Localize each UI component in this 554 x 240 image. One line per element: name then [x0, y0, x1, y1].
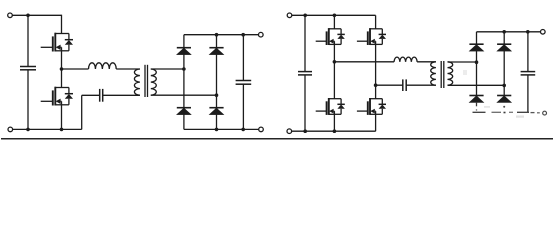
transistor Q4 (full-bridge leg A low MOSFET): [316, 98, 345, 115]
terminal input- (right circuit): [287, 129, 292, 134]
node top rail / C6 junction: [526, 30, 530, 34]
diode D3 (bridge upper-right): [209, 48, 223, 55]
node top rail / C3 junction: [241, 33, 245, 37]
transformer T2 primary winding: [431, 62, 436, 85]
wire inductor to transformer primary (right): [417, 61, 436, 63]
terminal input+ (right circuit): [287, 13, 292, 18]
wire Q1 source lead: [61, 51, 63, 69]
wire midpoint to inductor: [62, 68, 89, 70]
node top rail / Q3 drain: [333, 14, 337, 18]
wire Q5 source lead: [375, 44, 377, 85]
diode D8 (rect lower-right): [497, 96, 511, 103]
terminal input+ (left circuit): [8, 13, 13, 18]
transistor Q6 (full-bridge leg B low MOSFET): [357, 98, 386, 115]
transistor Q5 (full-bridge leg B high MOSFET): [357, 28, 386, 45]
diode D7 (rect upper-right): [497, 44, 511, 51]
diode D4 (bridge lower-right): [209, 108, 223, 115]
wire top input rail (right): [292, 14, 376, 16]
wire Q4 drain lead: [333, 62, 335, 99]
transformer T2 secondary winding: [448, 62, 453, 85]
wire midpoint to D4: [216, 95, 218, 108]
diode D6 (rect lower-left): [469, 96, 483, 103]
capacitor Cr (resonant cap): [82, 89, 140, 102]
node bottom rail / C4 junction: [303, 129, 307, 133]
inductor Lr2 (resonant inductor, right): [394, 57, 417, 62]
wire bridge right leg upper: [216, 35, 218, 48]
wire secondary top lead (right): [448, 61, 477, 63]
node bottom rail / Q4 source: [333, 129, 337, 133]
node secondary bottom / rect right-leg midpoint: [502, 84, 506, 88]
diode D2 (bridge lower-left): [177, 108, 191, 115]
capacitor Cr2 (resonant cap, right): [376, 79, 436, 91]
wire output top rail: [184, 34, 259, 36]
wire D2 anode to bottom rail: [183, 114, 185, 129]
wire Q2 source lead: [61, 105, 63, 130]
wire Q3 drain lead: [333, 15, 335, 28]
wire secondary bottom lead: [151, 94, 217, 96]
wire Q2 drain lead: [61, 69, 63, 88]
node top rail / D7 cathode: [502, 30, 506, 34]
inductor Lr (resonant inductor): [89, 63, 117, 69]
wire midpoint to D6: [476, 62, 478, 95]
wire D5 anode to midpoint: [476, 51, 478, 62]
transformer T1 secondary winding: [151, 69, 156, 95]
diode D1 (bridge upper-left): [177, 48, 191, 55]
wire rect right leg upper: [503, 32, 505, 44]
transistor Q2 (low-side MOSFET with body diode): [41, 87, 73, 106]
wire bottom input rail (right): [292, 130, 376, 132]
node top rail / C4 junction: [303, 14, 307, 18]
wire secondary bottom lead (right): [448, 84, 505, 86]
node secondary top / rect left-leg midpoint: [475, 60, 479, 64]
wire output bottom rail: [184, 128, 259, 130]
wire Q6 drain lead: [375, 85, 377, 99]
node half-bridge midpoint A: [60, 67, 64, 71]
capacitor C3 (output filter cap): [236, 35, 252, 130]
node secondary bottom / bridge right-leg midpoint: [215, 93, 219, 97]
wire D1 anode to midpoint: [183, 54, 185, 69]
wire D3 anode to midpoint: [216, 54, 218, 95]
transformer T1 core: [145, 65, 148, 97]
terminal output- (left circuit): [259, 127, 264, 132]
wire secondary top lead: [151, 68, 184, 70]
capacitor C6 (output filter cap, right): [521, 32, 536, 113]
node leg B midpoint: [374, 83, 378, 87]
node bottom rail / C1 junction: [26, 128, 30, 132]
wire rect top rail: [477, 31, 541, 33]
wire D4 anode to bottom rail: [216, 114, 218, 129]
wire Q6 source lead: [375, 114, 377, 131]
transformer T2 core: [441, 61, 444, 88]
wire top input rail: [12, 14, 61, 16]
node top rail / D3 cathode: [215, 33, 219, 37]
terminal output+ (right circuit): [541, 30, 546, 35]
terminal output+ (left circuit): [259, 32, 264, 37]
wire D6 anode stub (faded): [476, 102, 478, 111]
wire Q5 drain lead: [375, 15, 377, 28]
watermark remnant smudges (faint): [463, 70, 524, 118]
wire rect bottom rail (faded dashed): [473, 111, 540, 114]
wire rect left leg upper: [476, 32, 478, 44]
node top rail / C1 junction: [26, 14, 30, 18]
wire Q3 source lead: [333, 44, 335, 61]
diode D5 (rect upper-left): [469, 44, 483, 51]
wire resonant cap branch (bottom rail up): [81, 95, 83, 129]
transistor Q3 (full-bridge leg A high MOSFET): [316, 28, 345, 45]
wire leg A midpoint to inductor: [334, 61, 394, 63]
wire midpoint to D8: [503, 85, 505, 95]
transistor Q1 (high-side MOSFET with body diode): [41, 33, 73, 52]
node leg A midpoint: [333, 60, 337, 64]
terminal input- (left circuit): [8, 127, 13, 132]
terminal output- (right circuit, faded): [543, 111, 547, 115]
wire bridge left leg upper: [183, 35, 185, 48]
node secondary top / bridge left-leg midpoint: [182, 67, 186, 71]
wire D7 anode to midpoint: [503, 51, 505, 86]
node bottom rail / Q2 source junction: [60, 128, 64, 132]
wire Q1 drain lead: [61, 15, 63, 34]
capacitor C4 (input bulk cap, right): [298, 15, 312, 131]
transformer T1 primary winding: [134, 69, 139, 95]
wire bottom input rail: [12, 128, 81, 130]
node bottom rail / C3 junction: [241, 128, 245, 132]
wire midpoint to D2: [183, 69, 185, 108]
wire D8 anode stub (faded): [503, 106, 505, 108]
capacitor C1 (input bulk cap): [20, 15, 36, 129]
node bottom rail / D4 anode: [215, 128, 219, 132]
wire Q4 source lead: [333, 114, 335, 131]
wire inductor to transformer primary: [116, 68, 140, 70]
